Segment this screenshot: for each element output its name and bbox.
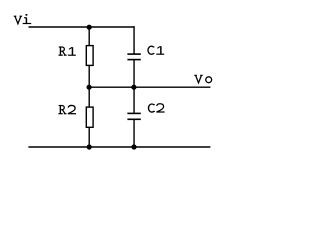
wire right vertical from mid node to C2 top plate [133, 87, 135, 113]
wire left vertical from top node to R1 [88, 27, 90, 46]
wire left vertical from R2 to bottom rail [88, 127, 90, 147]
node junction dot at Vi/top rail [87, 25, 92, 30]
label Vo [194, 75, 211, 83]
label C1 [148, 46, 164, 54]
wire right vertical upper (corner to C1 top plate) [133, 26, 135, 53]
wire left vertical from R1 through mid node to R2 [88, 65, 90, 107]
label R2 [58, 105, 76, 113]
wire right vertical between C1 bottom plate and mid node [133, 60, 135, 87]
wire top horizontal from Vi input [29, 26, 135, 28]
node junction dot mid-left R1/R2/Vo [87, 85, 92, 90]
wire middle horizontal to Vo output [89, 86, 210, 88]
wire right vertical from C2 bottom plate to bottom rail [133, 120, 135, 147]
label Vi [14, 14, 32, 24]
resistor R1 [86, 46, 93, 66]
node junction dot mid-right C1/C2 [131, 85, 136, 90]
label C2 [148, 104, 164, 112]
capacitor C1 [127, 54, 140, 60]
wire bottom rail [28, 146, 210, 148]
node junction dot bottom-right [131, 144, 136, 149]
node junction dot bottom-left [87, 144, 92, 149]
capacitor C2 [127, 113, 140, 119]
resistor R2 [86, 107, 93, 127]
label R1 [59, 47, 76, 55]
